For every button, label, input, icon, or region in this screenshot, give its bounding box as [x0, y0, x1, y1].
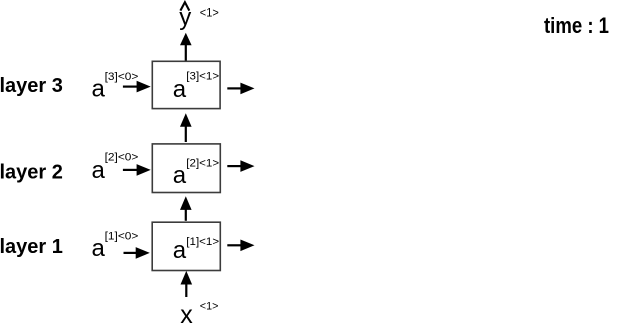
svg-text:a: a	[92, 235, 106, 262]
svg-text:<1>: <1>	[200, 301, 219, 313]
arrow: layer1 box to layer2 box	[180, 196, 192, 221]
box: layer 1 cell	[152, 222, 220, 270]
output node y-hat circumflex	[180, 2, 189, 10]
arrow: layer2 box to layer3 box	[180, 113, 192, 142]
svg-text:layer 1: layer 1	[0, 236, 63, 258]
label a[2]<1> inside box	[173, 158, 219, 190]
box: layer 3 cell	[152, 61, 220, 108]
svg-text:a: a	[92, 157, 106, 184]
arrow: layer2 output right	[227, 160, 254, 172]
svg-text:[2]<0>: [2]<0>	[105, 152, 139, 164]
box: layer 2 cell	[152, 144, 220, 193]
svg-text:<1>: <1>	[200, 5, 219, 19]
svg-text:y: y	[179, 4, 191, 31]
svg-text:layer 3: layer 3	[0, 75, 63, 97]
arrow: layer1 output right	[227, 240, 254, 252]
arrow: layer3 output right	[227, 83, 254, 95]
svg-text:[1]<1>: [1]<1>	[186, 236, 219, 248]
label a[1]<0>	[92, 230, 139, 261]
label a[3]<0>	[92, 71, 139, 102]
arrow: layer3 box to y-hat	[180, 33, 192, 61]
svg-text:a: a	[173, 237, 187, 264]
svg-text:a: a	[173, 162, 187, 189]
svg-text:[3]<1>: [3]<1>	[186, 70, 219, 82]
arrow: a[3]<0> into layer3 box	[123, 81, 151, 93]
arrow: a[2]<0> into layer2 box	[123, 164, 151, 176]
label a[1]<1> inside box	[173, 236, 219, 264]
label a[2]<0>	[92, 152, 139, 184]
arrow: a[1]<0> into layer1 box	[124, 247, 150, 259]
svg-text:layer 2: layer 2	[0, 161, 63, 183]
arrow: input x into layer1 box	[181, 271, 193, 297]
svg-text:a: a	[173, 76, 187, 103]
svg-text:time : 1: time : 1	[544, 13, 609, 38]
svg-text:[2]<1>: [2]<1>	[186, 158, 219, 170]
svg-text:x: x	[180, 301, 193, 329]
svg-text:[3]<0>: [3]<0>	[105, 71, 139, 83]
svg-text:a: a	[92, 75, 106, 102]
svg-text:[1]<0>: [1]<0>	[105, 230, 139, 242]
label a[3]<1> inside box	[173, 70, 219, 102]
